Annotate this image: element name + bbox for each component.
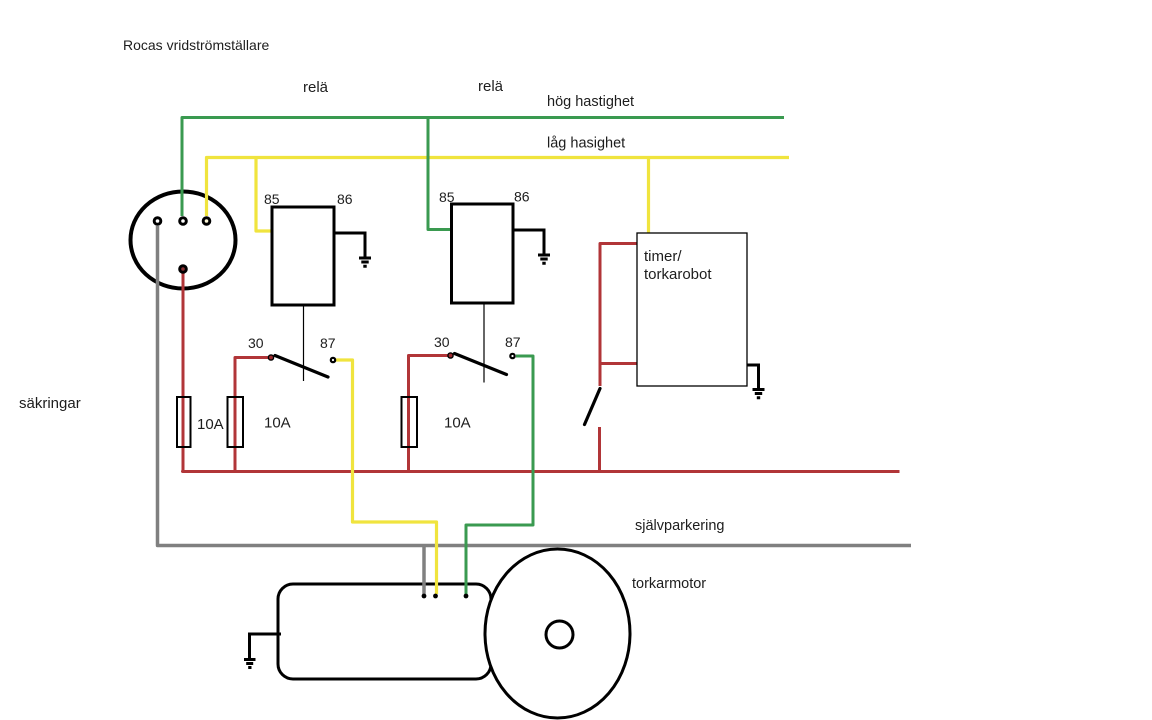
wire red: bus riser through fuse F3 to relay K2 pin 30 [409, 356, 449, 472]
wire red: timer feed loop [600, 244, 638, 387]
wire red: bus riser through fuse F2 to relay K1 pin 30 [235, 358, 268, 472]
svg-text:timer/: timer/ [644, 248, 682, 265]
svg-text:låg hasighet: låg hasighet [547, 136, 625, 152]
wire yellow: branch to relay K1 pin 85 [256, 158, 274, 232]
torkarmotor body [278, 584, 491, 679]
svg-text:säkringar: säkringar [19, 395, 81, 412]
wire: timer to ground [747, 365, 759, 388]
wire green: hög hastighet line from switch pin [182, 118, 784, 217]
svg-text:torkarobot: torkarobot [644, 266, 712, 283]
relay K2 switch blade [455, 354, 507, 375]
svg-text:10A: 10A [444, 415, 471, 432]
timer switch blade [585, 389, 601, 425]
svg-text:10A: 10A [264, 415, 291, 432]
wire green: branch to relay K2 pin 85 [428, 118, 454, 230]
motor shaft circle [546, 621, 573, 648]
fuse F3 10A [402, 397, 418, 447]
svg-text:10A: 10A [197, 416, 224, 433]
rotary switch pin (gray, left) [154, 218, 161, 225]
rotary switch SW1 (Rocas vridströmställare) body [131, 192, 236, 289]
relay K2 contact 30 node [448, 353, 453, 358]
wire gray: switch pin to självparkering bus [158, 226, 912, 546]
wire red: switch bottom pin through fuse F1 to +12V bus [183, 265, 900, 472]
svg-text:85: 85 [439, 189, 455, 205]
svg-text:30: 30 [434, 334, 450, 350]
svg-text:hög hastighet: hög hastighet [547, 94, 634, 110]
wire gray: stub to motor parking terminal [422, 547, 426, 594]
relay K1 contact 87 node [331, 358, 335, 362]
fuse F1 10A [177, 397, 191, 447]
relay K2 coil wire to contact [483, 303, 485, 383]
wire yellow: branch to timer top [647, 158, 650, 237]
svg-text:30: 30 [248, 335, 264, 351]
svg-text:85: 85 [264, 191, 280, 207]
motor terminal node (high speed, green) [464, 594, 469, 599]
svg-text:torkarmotor: torkarmotor [632, 576, 706, 592]
timer/torkarobot box [637, 233, 747, 386]
svg-text:87: 87 [505, 334, 521, 350]
svg-text:87: 87 [320, 335, 336, 351]
wire: relay K1 pin 86 to ground [334, 233, 365, 257]
relay K1 coil wire to contact [303, 305, 305, 381]
svg-text:86: 86 [337, 191, 353, 207]
relay K1 switch blade [275, 356, 328, 378]
fuse F2 10A [228, 397, 244, 447]
motor gearbox disc [485, 549, 630, 718]
wire yellow: låg hastighet line with branches to switch pin, relay K1 pin 85 and timer [207, 158, 790, 217]
ground at relay K2 pin 86 [538, 255, 550, 263]
svg-text:Rocas vridströmställare: Rocas vridströmställare [123, 37, 269, 53]
relay K1 coil box [272, 207, 334, 305]
wire green: relay K2 pin 87 to motor high-speed terminal [466, 356, 533, 594]
motor terminal node (parking, gray) [422, 594, 427, 599]
relay K1 contact 30 node [268, 355, 273, 360]
rotary switch pin (green, middle) [180, 218, 187, 225]
wire red: timer switch lower segment to bus [598, 427, 601, 472]
wire yellow: relay K1 pin 87 to motor low-speed terminal [336, 360, 437, 594]
rotary switch pin (yellow, right) [203, 218, 210, 225]
ground at relay K1 pin 86 [359, 258, 371, 266]
ground at motor [250, 634, 282, 658]
svg-text:86: 86 [514, 189, 530, 205]
svg-text:relä: relä [478, 78, 504, 95]
ground at timer [753, 390, 765, 398]
wire: relay K2 pin 86 to ground [513, 230, 544, 254]
svg-text:självparkering: självparkering [635, 518, 724, 534]
relay K2 coil box [452, 204, 514, 303]
motor terminal node (low speed, yellow) [433, 594, 438, 599]
svg-text:relä: relä [303, 79, 329, 96]
relay K2 contact 87 node [510, 354, 514, 358]
rotary switch pin (red, bottom) [180, 266, 187, 273]
